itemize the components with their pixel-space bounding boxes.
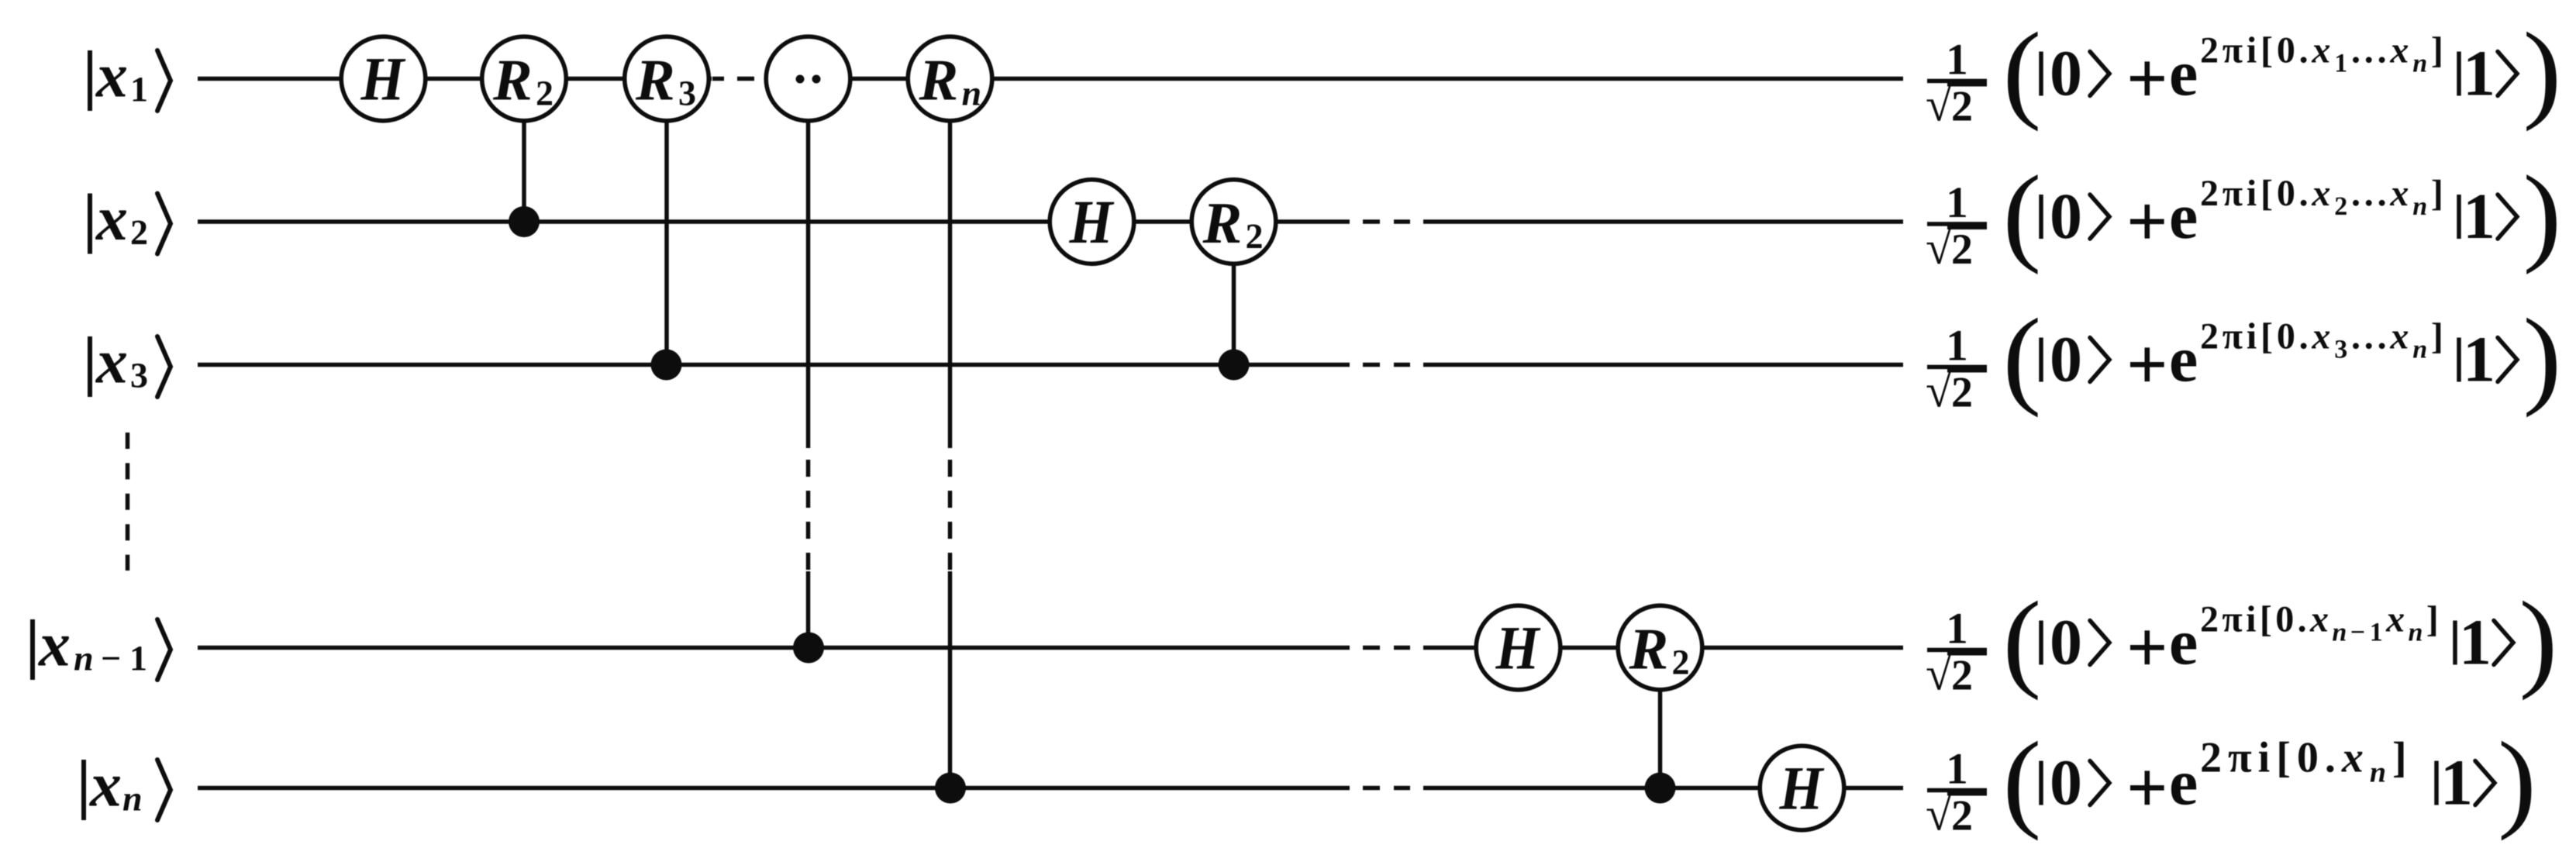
output state formula qn (1926, 719, 2536, 842)
gate R2 (q1) (482, 36, 567, 121)
gate Rn (q1) (908, 36, 992, 121)
control dot R2(q1) on q2 (509, 206, 540, 237)
svg-text:3: 3 (2334, 336, 2351, 364)
svg-text:3: 3 (130, 356, 148, 395)
control dot Rn(q1) on qn (935, 773, 966, 804)
svg-text:2: 2 (1951, 83, 1973, 131)
output state formula q1 (1926, 10, 2561, 133)
svg-text:0: 0 (2050, 324, 2082, 396)
svg-text:n: n (2370, 757, 2392, 789)
svg-text:e: e (2169, 181, 2198, 253)
svg-text:1: 1 (129, 639, 147, 678)
svg-text:2: 2 (1672, 643, 1690, 682)
svg-text:2: 2 (536, 74, 553, 113)
gate Rdots (q1, elided rotations) (766, 36, 850, 121)
svg-text:x: x (38, 609, 71, 680)
svg-text:): ) (2519, 579, 2557, 702)
svg-text:]: ] (2431, 316, 2447, 357)
svg-text:...: ... (2351, 316, 2390, 357)
wire q(n-1) right segment (1423, 646, 1903, 650)
control wire R2(q(n-1))-qn (1658, 648, 1663, 788)
svg-text:1: 1 (2440, 747, 2473, 819)
svg-text:2πi[0.: 2πi[0. (2200, 734, 2342, 782)
qubit ket label |x1> (90, 40, 171, 112)
svg-text:2πi[0.: 2πi[0. (2200, 173, 2312, 214)
svg-text:x: x (2311, 173, 2334, 214)
svg-text:n: n (74, 639, 94, 678)
svg-text:): ) (2523, 296, 2561, 419)
svg-text:n: n (2409, 619, 2426, 647)
svg-text:2: 2 (1951, 792, 1973, 840)
wire q(n-1) dashed continuation segment (1363, 646, 1410, 650)
svg-text:]: ] (2426, 599, 2442, 640)
svg-text:1: 1 (1946, 36, 1968, 84)
svg-text:+: + (2126, 325, 2168, 405)
control dot R3(q1) on q3 (651, 350, 682, 381)
control wire R3(q1)-q3 (664, 79, 669, 365)
svg-text:e: e (2169, 324, 2198, 396)
svg-text:2πi[0.: 2πi[0. (2200, 599, 2310, 640)
svg-text:R: R (1629, 617, 1669, 682)
svg-text:n: n (2412, 50, 2431, 78)
svg-text:x: x (89, 750, 122, 820)
svg-text:x: x (2389, 316, 2412, 357)
wire q1 right segment (766, 77, 1903, 81)
control dot Rdots(q1) on q(n-1) (793, 633, 824, 664)
output state formula q3 (1926, 296, 2561, 419)
wire q(n-1) left segment (198, 646, 1350, 650)
vertical ellipsis (additional qubits) (126, 433, 130, 571)
svg-text:e: e (2169, 747, 2198, 819)
wire q1 left segment (198, 77, 712, 81)
wire qn right segment (1423, 786, 1903, 791)
svg-text:(: ( (2002, 719, 2041, 842)
svg-text:(: ( (2002, 579, 2041, 702)
svg-text:): ) (2523, 153, 2561, 275)
svg-text:...: ... (2351, 173, 2390, 214)
svg-text:1: 1 (1946, 322, 1968, 371)
svg-text:+: + (2126, 608, 2168, 688)
svg-text:x: x (2341, 734, 2370, 782)
wire q3 left segment (198, 363, 1350, 367)
svg-text:√: √ (1926, 79, 1952, 132)
svg-text:]: ] (2392, 734, 2413, 782)
svg-text:√: √ (1926, 788, 1952, 841)
svg-text:1: 1 (2459, 607, 2492, 679)
svg-text:x: x (95, 326, 128, 397)
svg-text:√: √ (1926, 222, 1952, 274)
svg-text:√: √ (1926, 365, 1952, 418)
svg-text:+: + (2126, 181, 2168, 262)
wire q3 right segment (1423, 363, 1903, 367)
svg-text:R: R (919, 48, 959, 113)
qubit ket label |x3> (90, 326, 171, 398)
control wire R2(q1)-q2 (522, 79, 526, 222)
svg-text:): ) (2498, 719, 2536, 842)
svg-text:n: n (2412, 336, 2431, 364)
control wire R2(q2)-q3 (1232, 222, 1236, 365)
svg-text:H: H (1779, 755, 1825, 823)
gate R2 (q2) (1191, 180, 1276, 264)
svg-text:(: ( (2002, 296, 2041, 419)
svg-text:1: 1 (130, 70, 148, 109)
svg-text:H: H (360, 46, 406, 114)
svg-text:x: x (2309, 599, 2332, 640)
svg-text:x: x (2311, 30, 2334, 71)
svg-text:1: 1 (2370, 619, 2386, 647)
control wire Rn(q1)-qn upper solid (948, 79, 953, 449)
svg-text:(: ( (2002, 10, 2041, 133)
wire q1 dashed continuation segment (712, 77, 754, 81)
svg-text:1: 1 (2463, 324, 2495, 396)
svg-text:2: 2 (1246, 216, 1264, 256)
svg-text:1: 1 (1946, 745, 1968, 794)
svg-text:−: − (2350, 619, 2369, 647)
gate H (q(n-1)) (1476, 605, 1560, 690)
qubit ket label |x2> (90, 183, 171, 254)
svg-text:x: x (2311, 316, 2334, 357)
svg-text:1: 1 (2334, 50, 2351, 78)
svg-text:): ) (2523, 10, 2561, 133)
control wire Rdots(q1)-q(n-1) dashed middle (806, 460, 811, 571)
svg-text:2πi[0.: 2πi[0. (2200, 316, 2312, 357)
svg-text:2πi[0.: 2πi[0. (2200, 30, 2312, 71)
svg-text:√: √ (1926, 648, 1952, 701)
svg-text:...: ... (2351, 30, 2390, 71)
svg-text:]: ] (2431, 30, 2447, 71)
svg-text:x: x (2389, 173, 2412, 214)
svg-text:2: 2 (2334, 192, 2351, 221)
svg-text:n: n (2332, 619, 2350, 647)
svg-text:]: ] (2431, 173, 2447, 214)
output state formula q(n-1) (1926, 579, 2557, 702)
wire q2 right segment (1423, 219, 1903, 224)
svg-text:3: 3 (678, 74, 696, 113)
svg-text:0: 0 (2050, 747, 2082, 819)
svg-text:R: R (1202, 191, 1243, 256)
svg-text:e: e (2169, 607, 2198, 679)
svg-text:−: − (101, 639, 121, 678)
svg-text:+: + (2126, 39, 2168, 119)
control wire Rn(q1)-qn lower solid (948, 571, 953, 788)
output state formula q2 (1926, 153, 2561, 275)
gate H (qn) (1760, 746, 1844, 830)
control dot R2(q(n-1)) on qn (1645, 773, 1676, 804)
svg-text:e: e (2169, 38, 2198, 110)
svg-text:n: n (2412, 192, 2431, 221)
wire q2 dashed continuation segment (1363, 219, 1410, 224)
gate R3 (q1) (625, 36, 709, 121)
svg-text:0: 0 (2050, 38, 2082, 110)
gate H (q1) (341, 36, 426, 121)
svg-text:x: x (95, 183, 128, 253)
svg-text:x: x (2385, 599, 2408, 640)
control wire Rdots(q1)-q(n-1) upper solid (806, 79, 811, 449)
svg-text:1: 1 (2463, 38, 2495, 110)
svg-text:0: 0 (2050, 607, 2082, 679)
wire q3 dashed continuation segment (1363, 363, 1410, 367)
wire qn left segment (198, 786, 1350, 791)
svg-text:2: 2 (130, 212, 148, 252)
svg-text:0: 0 (2050, 181, 2082, 253)
svg-text:1: 1 (1946, 605, 1968, 653)
svg-text:H: H (1495, 615, 1541, 683)
svg-text:2: 2 (1951, 226, 1973, 274)
wire q2 left segment (198, 219, 1350, 224)
gate R2 (q(n-1)) (1618, 605, 1702, 690)
svg-text:n: n (122, 779, 143, 819)
control wire Rdots(q1)-q(n-1) lower solid (806, 571, 811, 648)
svg-text:x: x (2389, 30, 2412, 71)
svg-text:(: ( (2002, 153, 2041, 275)
svg-text:n: n (962, 74, 982, 113)
control wire Rn(q1)-qn dashed middle (948, 460, 953, 571)
wire qn dashed continuation segment (1363, 786, 1410, 791)
gate H (q2) (1050, 180, 1134, 264)
svg-text:2: 2 (1951, 369, 1973, 417)
svg-text:x: x (95, 40, 128, 111)
svg-text:+: + (2126, 748, 2168, 829)
control dot R2(q2) on q3 (1219, 350, 1250, 381)
svg-text:1: 1 (2463, 181, 2495, 253)
svg-text:2: 2 (1951, 652, 1973, 700)
svg-text:1: 1 (1946, 178, 1968, 227)
qubit ket label |x(n-1)> (33, 609, 171, 681)
svg-text:R: R (635, 48, 675, 113)
svg-text:R: R (492, 48, 533, 113)
svg-text:H: H (1069, 188, 1115, 257)
qubit ket label |xn> (84, 750, 171, 821)
